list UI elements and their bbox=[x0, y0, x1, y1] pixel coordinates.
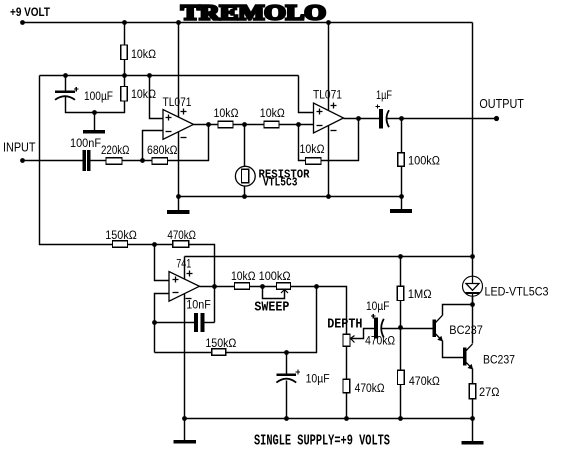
resistor 1M body bbox=[397, 286, 404, 300]
capacitor 10uF depth negative curved plate bbox=[381, 319, 384, 338]
wire depth pot bottom to 470k bbox=[346, 347, 348, 380]
node inverting input junction U1 bbox=[140, 158, 145, 163]
svg-text:10kΩ: 10kΩ bbox=[131, 89, 156, 101]
wire Q1 collector to LED cathode node bbox=[443, 305, 473, 316]
wire U2 feedback: inverting node down to 10k bbox=[299, 125, 306, 161]
resistor 150k 741 input body bbox=[113, 241, 128, 248]
wire depth wiper to 10uF coupling cap bbox=[351, 329, 375, 339]
node OUTPUT terminal bbox=[494, 116, 499, 121]
transistor Q2 collector diagonal bbox=[466, 344, 473, 351]
wire 10uF LFO bottom lead bbox=[286, 381, 288, 419]
resistor 10k sweep body bbox=[235, 283, 250, 289]
potentiometer 470k depth body bbox=[343, 334, 350, 346]
wire Q1 base wire bbox=[401, 328, 434, 330]
resistor 220k body bbox=[106, 158, 122, 165]
node 100uF ground junction bbox=[92, 110, 97, 115]
node INPUT terminal bbox=[20, 158, 25, 163]
op-amp U1 input plus marker bbox=[166, 115, 172, 121]
svg-text:+9 VOLT: +9 VOLT bbox=[10, 7, 50, 19]
resistor 470k 741 feedback body bbox=[173, 241, 189, 248]
node bias divider junction bbox=[122, 73, 127, 78]
node ground bus at U1 bbox=[176, 194, 181, 199]
svg-text:VTL5C3: VTL5C3 bbox=[263, 176, 298, 190]
wire U1 output to 10k chain bbox=[194, 124, 219, 126]
wire ground stem bottom right bbox=[472, 419, 474, 442]
node 741 non-inverting junction bbox=[152, 242, 157, 247]
transistor Q1 BC237 base bar bbox=[433, 320, 435, 337]
wire ground stem under 100uF bbox=[94, 113, 96, 131]
LED VTL5C3 circle bbox=[463, 276, 483, 296]
capacitor 100uF positive plate bbox=[55, 91, 75, 94]
capacitor 1uF negative curved plate bbox=[387, 110, 390, 127]
wire ground stem under 100k bbox=[401, 197, 403, 210]
node bottom rail at 10uF bbox=[284, 416, 289, 421]
resistor 10k U2 feedback body bbox=[306, 158, 322, 165]
LED anode lead inside circle bbox=[472, 276, 474, 283]
wire 100k output resistor bottom lead bbox=[401, 167, 403, 197]
node bottom rail at 27 ohm bbox=[470, 416, 475, 421]
ground under 100k output bbox=[391, 210, 412, 212]
svg-text:100kΩ: 100kΩ bbox=[408, 156, 440, 168]
wire 10uF coupling cap to base node bbox=[382, 328, 401, 330]
wire 680k right lead up to U1 output node bbox=[168, 125, 209, 161]
resistor 150k LFO body bbox=[212, 349, 226, 355]
svg-text:TL071: TL071 bbox=[313, 90, 342, 102]
node U2 output feedback tap bbox=[356, 116, 361, 121]
wire right +9V rail down to LED anode and transistor collectors bbox=[472, 23, 474, 305]
svg-text:100nF: 100nF bbox=[70, 138, 101, 150]
svg-text:1MΩ: 1MΩ bbox=[408, 289, 432, 301]
resistor 10k to U2 body bbox=[264, 121, 279, 128]
wire 100k output resistor top lead bbox=[401, 119, 403, 153]
photoresistor VTL5C3 circle bbox=[235, 166, 255, 186]
node bottom rail at 741 ground bbox=[182, 416, 187, 421]
svg-text:OUTPUT: OUTPUT bbox=[479, 97, 524, 111]
svg-text:BC237: BC237 bbox=[449, 325, 483, 337]
node LED cathode junction bbox=[470, 302, 475, 307]
wire op-amp U2 non-inverting input from bias line bbox=[299, 76, 314, 113]
wire op-amp U1 inverting input bbox=[143, 131, 164, 161]
wire 10k chain to U2 inverting input bbox=[280, 124, 314, 126]
node +9V terminal bbox=[20, 20, 25, 25]
wire input line to 100nF bbox=[23, 160, 84, 162]
resistor 10k bias upper body bbox=[121, 45, 128, 60]
wire 741 non-inverting input from node bbox=[155, 245, 170, 281]
wire 100uF bottom lead to R2 bottom bbox=[66, 97, 125, 113]
svg-text:680kΩ: 680kΩ bbox=[147, 145, 178, 157]
node bias resistor top on +9V rail bbox=[122, 20, 127, 25]
wire between 10k resistors bbox=[234, 124, 265, 126]
wire Q2 emitter down to 27 ohm bbox=[472, 369, 474, 384]
wire op-amp U1 non-inverting input from bias line bbox=[150, 76, 164, 119]
svg-text:DEPTH: DEPTH bbox=[327, 317, 362, 332]
wire bias divider middle leads bbox=[124, 60, 126, 76]
transistor Q2 BC237 base bar bbox=[464, 348, 466, 365]
capacitor 10nF right plate bbox=[201, 314, 203, 332]
svg-text:TL071: TL071 bbox=[163, 97, 192, 109]
wire 1uF to OUTPUT terminal bbox=[387, 118, 497, 120]
op-amp U1 TL071 triangle bbox=[163, 110, 194, 140]
wire 10nF left lead bbox=[155, 322, 195, 324]
wire R2 top lead bbox=[124, 76, 126, 87]
op-amp U2 input plus marker bbox=[317, 109, 323, 115]
svg-text:470kΩ: 470kΩ bbox=[365, 336, 395, 348]
wire bias node line y=75.5 bbox=[40, 75, 299, 77]
node U1 plus input tap bbox=[147, 73, 152, 78]
wire 470k below depth pot to bottom rail bbox=[346, 393, 348, 419]
wire 100uF top lead bbox=[65, 76, 67, 91]
svg-text:150kΩ: 150kΩ bbox=[105, 230, 137, 242]
svg-text:150kΩ: 150kΩ bbox=[205, 338, 236, 350]
wire Q2 collector vertical bbox=[472, 305, 474, 344]
wire 150k to 741 non-inverting node bbox=[128, 244, 173, 246]
wire op-amp U2 supply line from +9V rail to ground bus bbox=[328, 23, 330, 197]
transistor Q2 emitter diagonal bbox=[466, 362, 473, 369]
wire 10uF LFO top lead bbox=[286, 353, 288, 374]
wire VTL5C3 photoresistor bottom lead bbox=[244, 187, 246, 197]
capacitor 100nF right plate bbox=[88, 151, 90, 171]
svg-text:741: 741 bbox=[176, 259, 191, 271]
transistor Q1 collector diagonal bbox=[435, 315, 442, 323]
wire 1M bottom lead to base node bbox=[400, 301, 402, 371]
LED cathode lead inside circle bbox=[472, 293, 474, 305]
capacitor 100uF negative curved plate bbox=[55, 96, 75, 100]
wire 741 supply line V+ to V- down to bottom rail bbox=[184, 257, 186, 419]
wire 220k to inverting node bbox=[123, 160, 153, 162]
node photoresistor tap bbox=[242, 122, 247, 127]
node 741 inverting junction bbox=[152, 320, 157, 325]
capacitor 10uF LFO positive plate bbox=[276, 373, 296, 376]
svg-text:10nF: 10nF bbox=[186, 300, 211, 312]
svg-text:10kΩ: 10kΩ bbox=[231, 271, 256, 283]
wire 150k to 10uF node and up to sweep output node bbox=[226, 287, 317, 353]
resistor 470k base body bbox=[398, 370, 405, 384]
node 1M top on supply line bbox=[398, 254, 403, 259]
svg-text:LED-VTL5C3: LED-VTL5C3 bbox=[485, 287, 549, 299]
svg-text:BC237: BC237 bbox=[483, 354, 515, 366]
potentiometer 100k sweep body bbox=[277, 283, 291, 289]
capacitor 10uF depth positive plate bbox=[375, 318, 377, 338]
node U2 supply on +9V rail bbox=[326, 20, 331, 25]
node bottom rail at base 470k bbox=[398, 416, 403, 421]
capacitor 10nF left plate bbox=[195, 314, 197, 332]
node Q1 base junction bbox=[398, 325, 403, 330]
wire 741 inverting input down to 10nF node and 150k line bbox=[155, 294, 170, 353]
node 100uF top on bias line bbox=[63, 73, 68, 78]
resistor 680k body bbox=[152, 158, 168, 165]
svg-text:10kΩ: 10kΩ bbox=[214, 108, 239, 120]
wire 1M top lead from supply line bbox=[400, 257, 402, 287]
op-amp U2 input minus marker bbox=[317, 125, 323, 127]
wire +9V distribution line to 741 supply bbox=[185, 256, 473, 258]
svg-text:10µF: 10µF bbox=[306, 374, 330, 386]
svg-text:SWEEP: SWEEP bbox=[254, 301, 289, 316]
op-amp U3 Vminus marker bbox=[186, 298, 192, 300]
resistor 27 ohm body bbox=[469, 384, 476, 399]
potentiometer sweep wiper arrow head bbox=[281, 290, 288, 294]
wire +9V top rail bbox=[23, 22, 473, 24]
wire 150k LFO line bbox=[155, 352, 212, 354]
op-amp U3 Vplus marker bbox=[187, 271, 193, 277]
photoresistor VTL5C3 body bbox=[242, 169, 249, 183]
op-amp U2 Vplus marker bbox=[331, 103, 337, 109]
wire ground stem under op-amp U1 bbox=[178, 197, 180, 211]
wire sweep wiper return bbox=[263, 287, 285, 299]
svg-text:470kΩ: 470kΩ bbox=[167, 230, 196, 242]
svg-text:10µF: 10µF bbox=[366, 301, 390, 313]
wire bottom ground rail bbox=[185, 418, 473, 420]
node supply line at right rail bbox=[470, 254, 475, 259]
resistor 10k U1 output body bbox=[218, 121, 233, 128]
ground under 100uF bbox=[84, 131, 105, 133]
ground under 741 bbox=[174, 441, 195, 443]
node 10uF LFO tap bbox=[284, 350, 289, 355]
capacitor 10uF depth polarity plus bbox=[371, 314, 376, 319]
op-amp U1 input minus marker bbox=[166, 131, 172, 133]
wire U2 feedback 10k to output node bbox=[322, 119, 359, 161]
resistor 100k output body bbox=[398, 153, 405, 167]
capacitor 10uF LFO negative curved plate bbox=[276, 379, 296, 383]
svg-text:1µF: 1µF bbox=[376, 90, 392, 102]
node U1 supply on +9V rail bbox=[176, 20, 181, 25]
svg-text:INPUT: INPUT bbox=[3, 141, 36, 155]
ground bottom right bbox=[462, 442, 483, 444]
ground under op-amp U1 bbox=[168, 211, 189, 213]
svg-text:10kΩ: 10kΩ bbox=[260, 108, 285, 120]
svg-text:TREMOLO: TREMOLO bbox=[181, 1, 326, 25]
node ground bus at U2 bbox=[326, 194, 331, 199]
LED triangle bbox=[466, 284, 479, 291]
svg-text:470kΩ: 470kΩ bbox=[409, 376, 440, 388]
svg-text:470kΩ: 470kΩ bbox=[355, 383, 385, 395]
svg-text:100kΩ: 100kΩ bbox=[259, 271, 291, 283]
node sweep wiper junction bbox=[260, 284, 265, 289]
svg-text:10kΩ: 10kΩ bbox=[300, 144, 325, 156]
node U2 inverting input bbox=[296, 122, 301, 127]
wire 470k base resistor bottom lead bbox=[400, 385, 402, 419]
node ground bus at 100k bbox=[399, 194, 404, 199]
node ground bus at photoresistor bbox=[242, 194, 247, 199]
capacitor 10uF LFO polarity plus bbox=[296, 370, 301, 375]
op-amp U1 Vplus marker bbox=[181, 109, 187, 115]
wire 741 output to sweep chain bbox=[200, 286, 235, 288]
svg-text:100µF: 100µF bbox=[84, 91, 113, 103]
op-amp U3 741 triangle bbox=[169, 272, 199, 302]
wire op-amp U1 supply line from +9V rail to ground bus bbox=[178, 23, 180, 197]
node U1 output bbox=[206, 122, 211, 127]
op-amp U2 TL071 triangle bbox=[314, 103, 344, 133]
wire 470k feedback right lead down to 741 output then to 10nF corner bbox=[190, 245, 215, 323]
node 100k tap on output wire bbox=[399, 116, 404, 121]
resistor 470k below depth pot body bbox=[343, 379, 350, 393]
node bottom rail at depth 470k bbox=[344, 416, 349, 421]
node sweep output junction bbox=[314, 284, 319, 289]
node 741 output bbox=[212, 284, 217, 289]
wire Q1 emitter to Q2 base bbox=[443, 341, 464, 358]
svg-text:SINGLE SUPPLY=+9 VOLTS: SINGLE SUPPLY=+9 VOLTS bbox=[254, 434, 390, 450]
wire left bias rail down to 150k bbox=[40, 76, 113, 245]
op-amp U3 input minus marker bbox=[173, 292, 179, 294]
LED cathode bar bbox=[465, 292, 479, 294]
wire sweep pot to depth pot corner bbox=[291, 287, 347, 335]
transistor Q1 emitter diagonal bbox=[435, 334, 442, 341]
wire bias divider top lead bbox=[124, 23, 126, 46]
svg-text:220kΩ: 220kΩ bbox=[101, 145, 130, 157]
potentiometer depth wiper arrow head bbox=[351, 336, 355, 343]
wire 27 ohm bottom lead bbox=[472, 399, 474, 419]
op-amp U1 Vminus marker bbox=[181, 137, 187, 139]
wire 10k to 100k sweep pot bbox=[250, 286, 277, 288]
capacitor 100uF polarity plus bbox=[74, 87, 79, 92]
capacitor 100nF left plate bbox=[83, 151, 85, 171]
capacitor 1uF positive plate bbox=[380, 110, 382, 128]
transistor Q1 emitter arrow head bbox=[437, 336, 443, 342]
op-amp U2 Vminus marker bbox=[331, 130, 337, 132]
wire ground bus under op-amps bbox=[179, 196, 402, 198]
op-amp U3 input plus marker bbox=[173, 277, 179, 283]
capacitor 1uF polarity plus bbox=[375, 104, 379, 108]
transistor Q2 emitter arrow head bbox=[468, 364, 474, 370]
svg-text:27Ω: 27Ω bbox=[479, 387, 500, 399]
wire VTL5C3 photoresistor top lead bbox=[244, 125, 246, 167]
wire 100nF to 220k bbox=[91, 160, 107, 162]
resistor 10k bias lower body bbox=[121, 87, 128, 102]
wire 10nF right lead to output node bbox=[204, 322, 215, 324]
svg-text:10kΩ: 10kΩ bbox=[131, 49, 156, 61]
wire U2 output to 1uF bbox=[344, 118, 380, 120]
wire ground stem under 741 bbox=[184, 419, 186, 441]
